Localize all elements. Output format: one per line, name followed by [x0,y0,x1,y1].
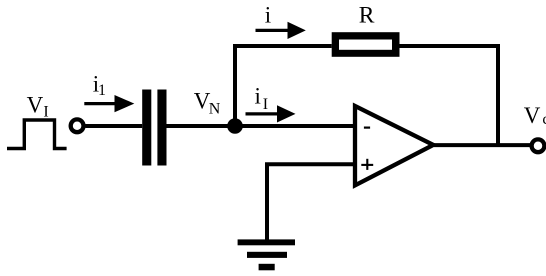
capacitor C (left plate) [142,90,151,166]
svg-text:i: i [265,3,271,28]
node V_N junction dot [227,118,243,134]
wire: non-inverting input to ground [267,164,357,240]
capacitor C (right plate) [157,90,166,166]
svg-text:N: N [209,100,221,117]
op-amp plus sign [361,164,373,166]
svg-text:R: R [359,3,375,29]
svg-text:I: I [43,103,48,120]
output terminal circle [532,139,545,152]
input terminal circle [71,119,84,132]
svg-text:V: V [27,92,44,117]
svg-text:1: 1 [98,82,106,99]
current arrow i [256,29,293,32]
svg-text:I: I [263,96,268,113]
ground [238,239,295,245]
wire: resistor to output (feedback right side) [400,46,499,145]
op-amp minus sign [364,126,370,128]
wire: op-amp output to terminal [434,143,530,147]
svg-text:i: i [255,83,261,108]
input pulse waveform symbol [7,120,67,149]
svg-text:c: c [542,111,546,128]
current arrow i_I [246,112,284,115]
op-amp U1 [355,106,433,185]
svg-text:V: V [524,103,541,128]
current arrow i1 [84,102,122,105]
resistor R [332,32,400,57]
wire: node up and to feedback resistor [235,46,332,126]
wire: capacitor to op-amp inverting input [167,124,357,128]
wire: terminal to capacitor [86,124,143,128]
